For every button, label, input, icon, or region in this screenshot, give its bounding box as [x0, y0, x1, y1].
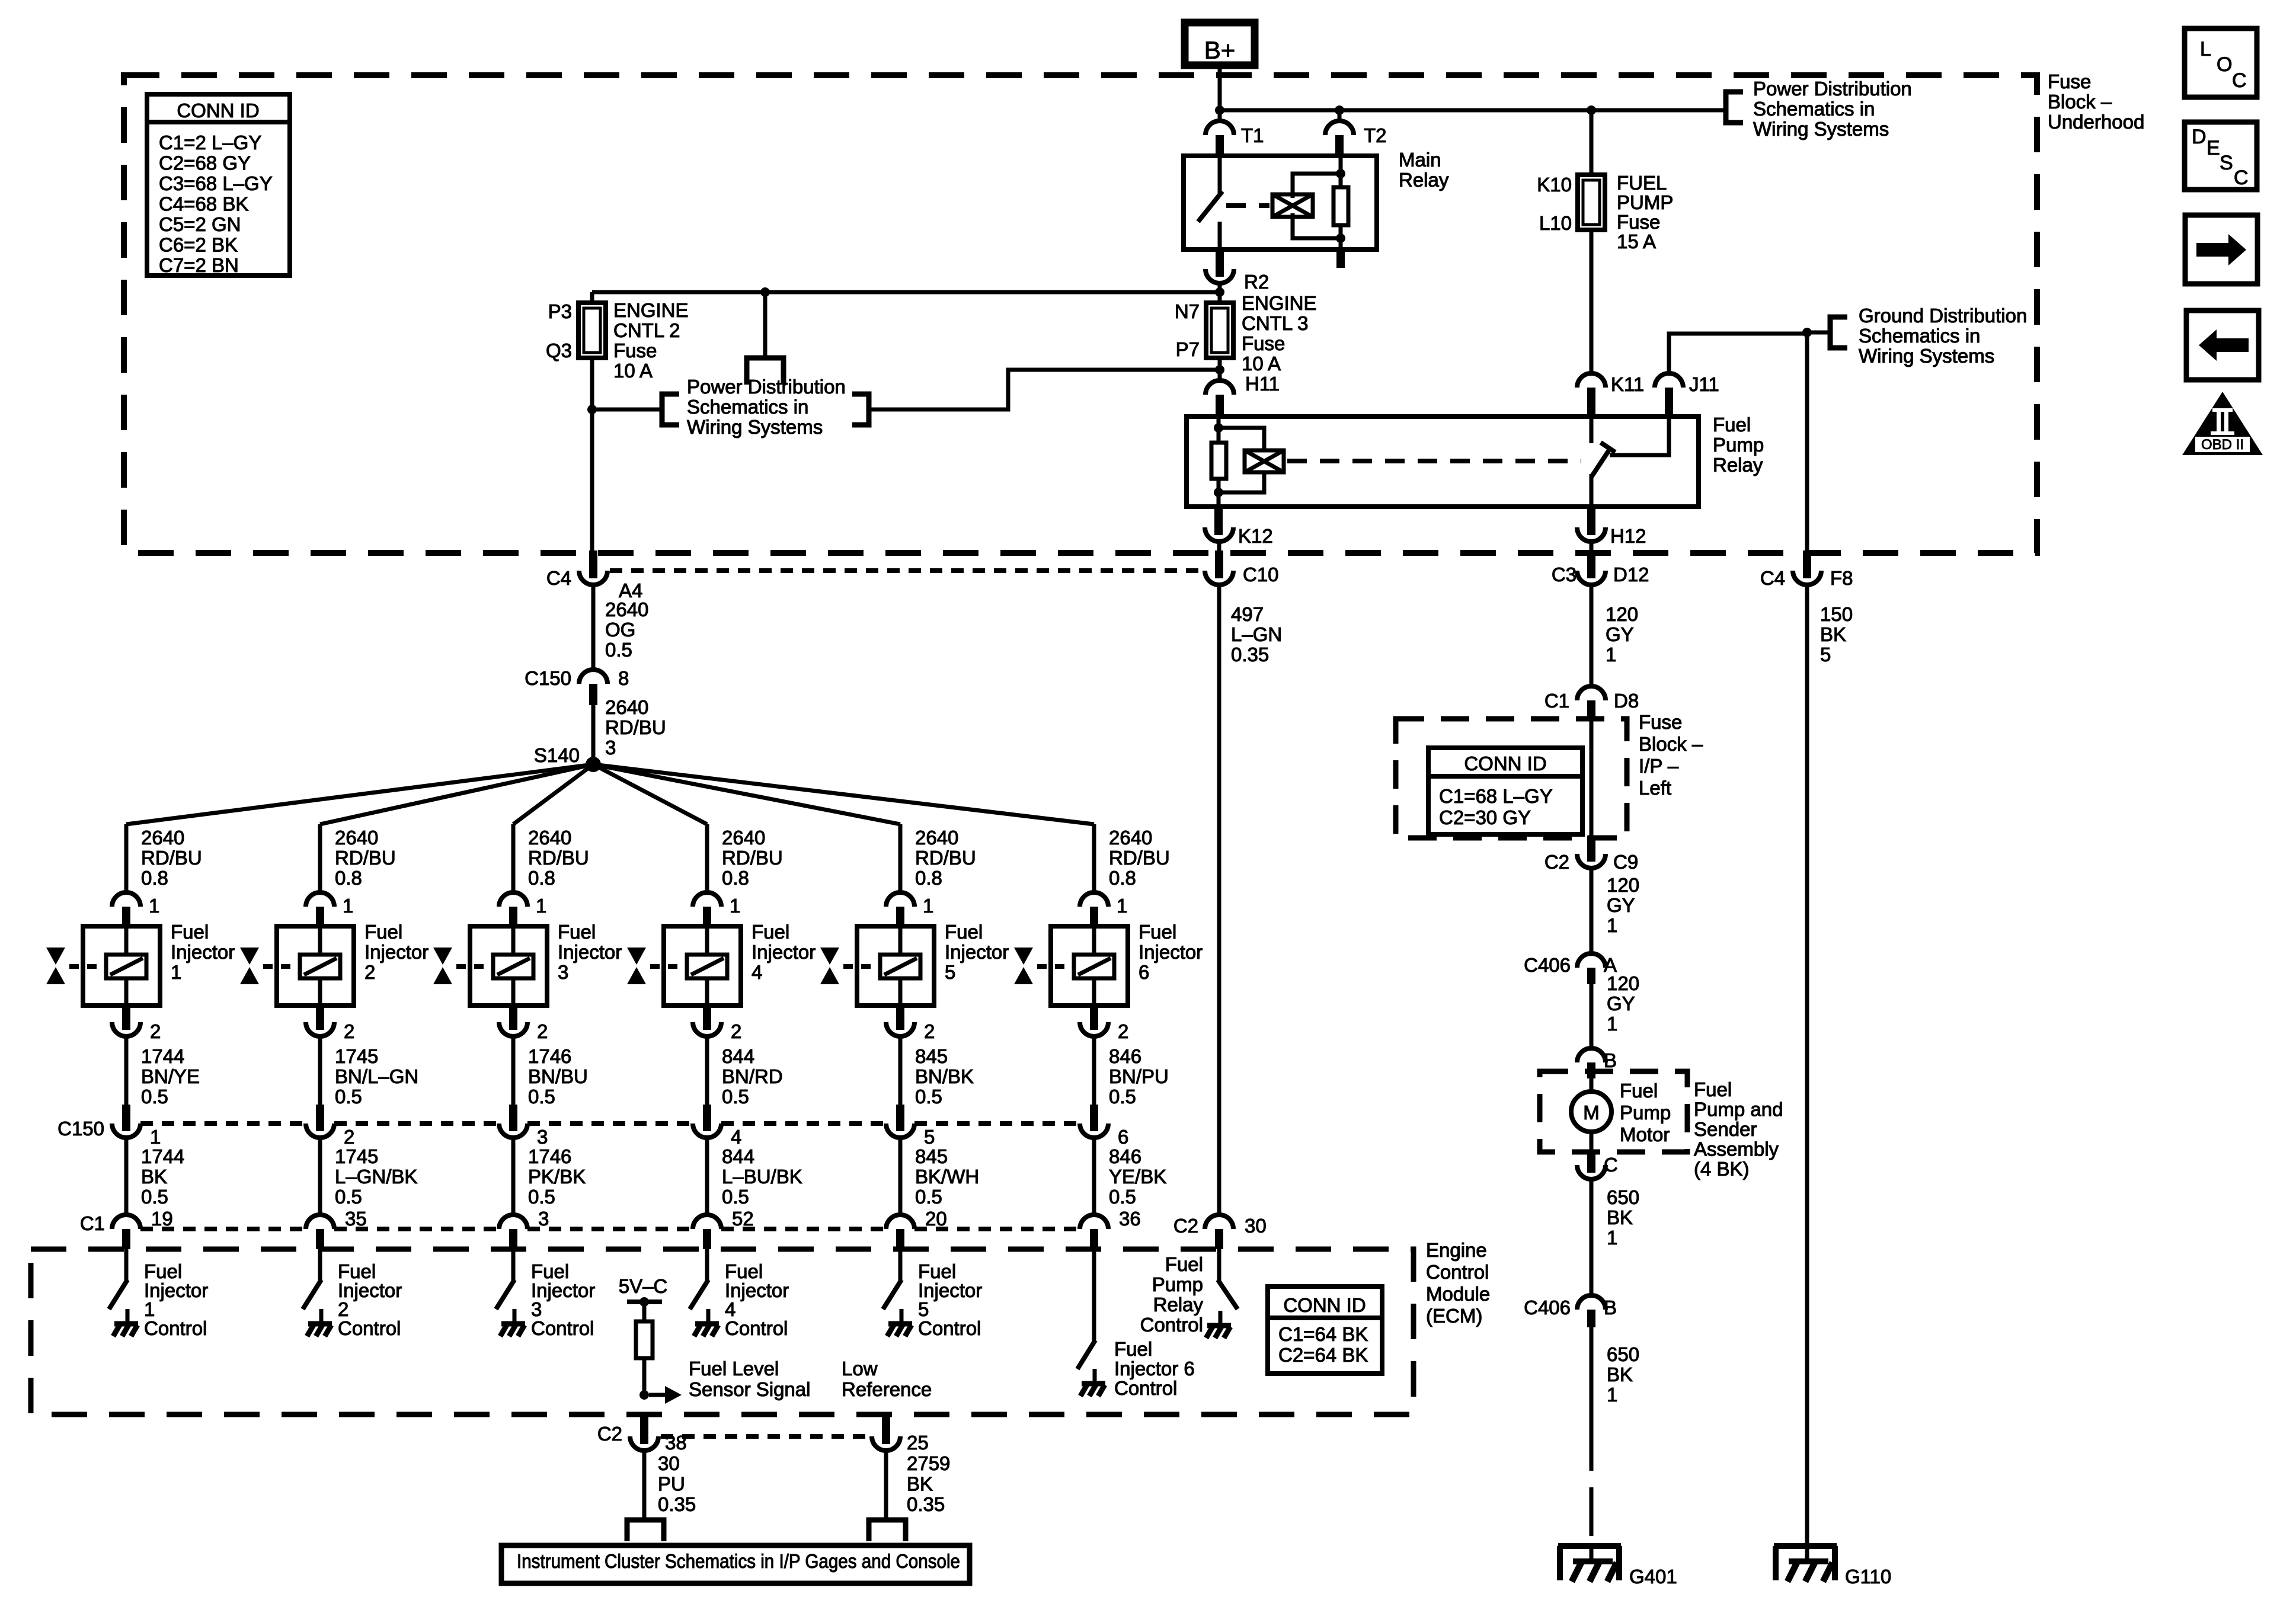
dotted connector line C150 row — [140, 1121, 306, 1126]
wire C150 to C1 injector 1 — [124, 1138, 129, 1215]
fuel injector 6 coil — [1074, 955, 1114, 978]
connector C1 pin 35 — [306, 1215, 334, 1229]
connector C — [1577, 1165, 1606, 1179]
svg-text:120: 120 — [1606, 603, 1638, 625]
svg-text:10 A: 10 A — [1242, 353, 1281, 375]
fuel injector 1 box — [83, 926, 160, 1006]
svg-text:PK/BK: PK/BK — [528, 1166, 586, 1188]
svg-text:Fuse: Fuse — [1639, 711, 1682, 733]
fuel pump motor M — [1571, 1092, 1611, 1132]
fuel level sensor wire upper — [642, 1302, 647, 1321]
svg-text:1744: 1744 — [141, 1045, 184, 1067]
fuel level sensor signal arrow — [649, 1393, 665, 1397]
svg-text:Fuse: Fuse — [1617, 211, 1660, 233]
svg-text:PU: PU — [658, 1473, 685, 1495]
svg-text:1: 1 — [536, 895, 546, 917]
DESC icon — [2185, 122, 2257, 190]
svg-text:Control: Control — [144, 1317, 207, 1339]
wire down injector 2 — [318, 824, 322, 892]
svg-text:Fuel: Fuel — [171, 921, 209, 943]
wire down injector 3 — [511, 824, 516, 892]
svg-text:Fuel: Fuel — [1713, 414, 1751, 436]
svg-text:1746: 1746 — [528, 1145, 571, 1167]
pin K12 through fuse block edge — [1215, 550, 1223, 578]
svg-text:Left: Left — [1639, 777, 1671, 799]
svg-text:0.5: 0.5 — [1109, 1186, 1136, 1208]
bracket ground distribution — [1830, 317, 1847, 348]
svg-text:C1: C1 — [1544, 690, 1569, 712]
svg-text:I/P –: I/P – — [1639, 755, 1679, 777]
fuel injector 6 nozzle bowtie — [1014, 948, 1033, 965]
connector R2 — [1205, 269, 1234, 283]
splice fan wire to injector 3 — [513, 764, 593, 824]
wire down injector 6 — [1092, 824, 1096, 892]
fuel injector 5 coil — [880, 955, 920, 978]
fuel injector 6 inner wires — [1092, 926, 1096, 955]
connector C1 pin 36 — [1080, 1215, 1108, 1229]
svg-text:BK: BK — [1607, 1206, 1633, 1228]
connector C150 pin 3 — [499, 1124, 527, 1138]
ECM fuel injector 2 control switch — [304, 1282, 320, 1307]
svg-text:Power Distribution: Power Distribution — [1753, 78, 1912, 100]
ECM fuel injector 2 control wire — [318, 1249, 322, 1282]
svg-text:C4: C4 — [546, 567, 571, 589]
svg-text:0.5: 0.5 — [528, 1186, 555, 1208]
svg-text:C3: C3 — [1552, 564, 1576, 585]
connector T2 — [1325, 121, 1354, 135]
fuel injector 5 inner wires — [898, 926, 903, 955]
svg-text:Pump: Pump — [1152, 1273, 1203, 1295]
wire C10 down to ECM — [1217, 585, 1221, 1215]
ground G110 — [1774, 1543, 1837, 1549]
fp relay coil top wire — [1219, 428, 1264, 450]
svg-text:CONN ID: CONN ID — [177, 100, 259, 121]
svg-text:Wiring Systems: Wiring Systems — [1753, 118, 1889, 140]
fuel injector 4 coil — [687, 955, 727, 978]
svg-text:846: 846 — [1109, 1145, 1141, 1167]
junction dot T2 bus — [1335, 105, 1344, 115]
svg-text:Control: Control — [531, 1317, 594, 1339]
wire injector 4 down to C150 — [705, 1036, 709, 1105]
svg-text:2640: 2640 — [722, 827, 765, 849]
svg-text:S140: S140 — [534, 744, 580, 766]
svg-text:844: 844 — [722, 1045, 754, 1067]
fuel level sensor wire lower — [642, 1358, 647, 1395]
main relay actuation dashes — [1226, 203, 1269, 208]
svg-text:FUEL: FUEL — [1617, 172, 1667, 194]
svg-text:C9: C9 — [1613, 851, 1638, 873]
svg-text:2: 2 — [150, 1020, 161, 1042]
fuel injector 6 actuation dashes — [1037, 964, 1074, 969]
svg-text:Pump and: Pump and — [1694, 1099, 1783, 1121]
svg-text:R2: R2 — [1244, 271, 1269, 293]
svg-text:0.5: 0.5 — [528, 1086, 555, 1108]
svg-text:Sensor Signal: Sensor Signal — [689, 1378, 810, 1400]
fuel injector 1 nozzle bowtie — [46, 948, 65, 965]
svg-text:1: 1 — [730, 895, 740, 917]
wire B to motor — [1590, 1078, 1594, 1092]
svg-text:Fuse: Fuse — [1242, 332, 1285, 354]
ECM fuel injector 3 control wire — [511, 1249, 516, 1282]
junction dot R2 bus — [1215, 287, 1224, 297]
svg-text:30: 30 — [658, 1452, 680, 1474]
ECM fuel injector 3 control switch — [497, 1282, 513, 1307]
wire down injector 4 — [705, 824, 709, 892]
svg-text:BK: BK — [141, 1166, 167, 1188]
svg-text:C2: C2 — [1544, 851, 1569, 873]
svg-text:RD/BU: RD/BU — [141, 847, 202, 869]
connector C1-D8 — [1577, 686, 1606, 700]
wire C150 to C1 injector 2 — [318, 1138, 322, 1215]
fp relay pin to H12 — [1587, 507, 1595, 535]
fuel injector 3 nozzle bowtie — [433, 948, 452, 965]
wire down injector 1 — [124, 824, 129, 892]
fuel injector 5 nozzle bowtie — [820, 948, 839, 965]
svg-text:1: 1 — [1607, 1013, 1617, 1035]
wire fuse Q3 down — [590, 358, 594, 553]
svg-text:C2=64 BK: C2=64 BK — [1278, 1344, 1368, 1366]
wire C4 to C150 — [591, 585, 596, 670]
connector H11 — [1205, 380, 1234, 395]
svg-text:Relay: Relay — [1713, 454, 1763, 476]
wire B down solid — [1590, 1327, 1594, 1422]
svg-text:10 A: 10 A — [613, 360, 653, 382]
svg-text:2640: 2640 — [141, 827, 184, 849]
svg-text:T2: T2 — [1364, 124, 1387, 146]
ECM ground fuel injector 4 control — [706, 1309, 711, 1324]
svg-text:0.8: 0.8 — [335, 867, 362, 889]
wire bus to fuel pump fuse — [1590, 110, 1594, 175]
wire J11 up and right — [1669, 334, 1807, 373]
svg-text:3: 3 — [558, 961, 568, 983]
svg-text:2: 2 — [1118, 1020, 1128, 1042]
wire injector 3 down to C150 — [511, 1036, 516, 1105]
main relay box — [1184, 156, 1377, 249]
ECM ground fuel injector 5 control — [900, 1309, 904, 1324]
svg-text:0.35: 0.35 — [658, 1493, 696, 1515]
svg-text:0.35: 0.35 — [1231, 644, 1269, 665]
svg-text:Control: Control — [725, 1317, 788, 1339]
svg-text:Power Distribution: Power Distribution — [687, 376, 846, 398]
wire to T2 — [1338, 110, 1342, 121]
svg-text:3: 3 — [537, 1126, 548, 1148]
svg-text:D12: D12 — [1613, 564, 1649, 585]
svg-text:RD/BU: RD/BU — [1109, 847, 1170, 869]
svg-text:N7: N7 — [1175, 300, 1200, 322]
svg-text:S: S — [2220, 152, 2233, 174]
arrow left icon — [2186, 311, 2259, 380]
svg-text:650: 650 — [1607, 1343, 1639, 1365]
arrow right icon — [2185, 215, 2257, 284]
svg-text:C2: C2 — [1173, 1215, 1198, 1237]
connector C10 — [1205, 571, 1233, 585]
svg-text:Reference: Reference — [842, 1378, 932, 1400]
fuel injector 3 coil — [493, 955, 533, 978]
svg-text:0.5: 0.5 — [915, 1186, 942, 1208]
ECM ground fuel injector 3 control — [513, 1309, 517, 1324]
fp relay resistor — [1211, 443, 1226, 479]
svg-text:497: 497 — [1231, 603, 1264, 625]
fp relay switch lower wire — [1590, 474, 1594, 507]
svg-text:2: 2 — [537, 1020, 548, 1042]
svg-text:0.5: 0.5 — [141, 1086, 168, 1108]
pin injector 4 C150 — [703, 1105, 711, 1131]
ECM ground fuel pump relay control — [1219, 1311, 1223, 1326]
svg-text:K10: K10 — [1537, 174, 1572, 196]
ECM CONN ID table — [1268, 1286, 1382, 1374]
svg-text:2: 2 — [924, 1020, 935, 1042]
wire B+ down — [1218, 65, 1222, 110]
fuel injector 4 box — [664, 926, 741, 1006]
svg-text:GY: GY — [1607, 993, 1635, 1014]
fp relay switch blade — [1593, 449, 1610, 475]
connector injector 6 pin 1 — [1080, 892, 1108, 907]
fuel injector 6 box — [1051, 926, 1128, 1006]
svg-text:0.8: 0.8 — [1109, 867, 1136, 889]
bracket power distribution below bus — [747, 358, 784, 385]
svg-text:Injector: Injector — [752, 941, 816, 963]
splice fan wire to injector 6 — [593, 764, 1094, 824]
connector C406-B — [1577, 1295, 1606, 1310]
svg-text:Low: Low — [842, 1358, 878, 1379]
svg-text:3: 3 — [538, 1208, 549, 1230]
fp relay coil — [1245, 450, 1284, 472]
svg-text:C: C — [2232, 69, 2247, 92]
ECM dashed outline — [31, 1249, 1414, 1414]
svg-text:Fuel: Fuel — [1139, 921, 1176, 943]
svg-text:ENGINE: ENGINE — [613, 299, 689, 321]
svg-text:2: 2 — [344, 1126, 354, 1148]
fp relay bottom junction dot — [1214, 488, 1223, 497]
svg-text:D: D — [2192, 126, 2207, 148]
svg-text:C: C — [1604, 1154, 1618, 1176]
svg-text:2: 2 — [731, 1020, 741, 1042]
fp relay resistor wires — [1217, 428, 1221, 443]
svg-text:RD/BU: RD/BU — [915, 847, 976, 869]
svg-text:L–GN: L–GN — [1231, 623, 1282, 645]
wire injector 6 down to C150 — [1092, 1036, 1096, 1105]
svg-text:5: 5 — [945, 961, 955, 983]
connector B — [1577, 1048, 1606, 1062]
svg-text:Ground Distribution: Ground Distribution — [1859, 305, 2027, 327]
fp relay J11 inner wire — [1610, 417, 1669, 455]
svg-text:YE/BK: YE/BK — [1109, 1166, 1166, 1188]
svg-text:4: 4 — [752, 961, 762, 983]
svg-text:BN/YE: BN/YE — [141, 1065, 200, 1087]
svg-text:BN/BK: BN/BK — [915, 1065, 974, 1087]
svg-text:Injector: Injector — [558, 941, 622, 963]
connector injector 4 pin 1 — [693, 892, 721, 907]
bus wire y186 — [1220, 108, 1726, 113]
wire C150 to C1 injector 3 — [511, 1138, 516, 1215]
svg-text:Fuel: Fuel — [945, 921, 983, 943]
svg-text:C6=2 BK: C6=2 BK — [159, 234, 238, 256]
connector injector 3 pin 2 — [509, 1006, 517, 1030]
connector C2-30 — [1205, 1215, 1233, 1229]
fuel level sensor resistor — [636, 1321, 653, 1358]
pin injector 1 C150 — [122, 1105, 130, 1131]
svg-text:(ECM): (ECM) — [1426, 1305, 1482, 1327]
wire C150 to C1 injector 4 — [705, 1138, 709, 1215]
connector C1 pin 52 — [693, 1215, 721, 1229]
connector C406-A — [1577, 953, 1606, 968]
fuel injector 3 box — [470, 926, 547, 1006]
svg-text:120: 120 — [1607, 874, 1639, 896]
svg-text:RD/BU: RD/BU — [722, 847, 783, 869]
svg-text:20: 20 — [925, 1208, 947, 1230]
wire K12 down — [1217, 542, 1221, 553]
svg-text:RD/BU: RD/BU — [605, 716, 666, 738]
svg-text:Fuse: Fuse — [613, 340, 657, 361]
svg-text:5: 5 — [1820, 644, 1831, 665]
junction dot power dist stub — [760, 287, 770, 297]
bracket instrument cluster right — [869, 1520, 906, 1541]
svg-text:C: C — [2234, 167, 2249, 189]
svg-text:2640: 2640 — [605, 598, 648, 620]
wire down injector 5 — [898, 824, 903, 892]
svg-text:Pump: Pump — [1713, 434, 1764, 456]
ECM fuel pump relay control wire — [1217, 1249, 1221, 1282]
svg-text:Wiring Systems: Wiring Systems — [687, 416, 823, 438]
svg-text:Fuel: Fuel — [558, 921, 596, 943]
bus wire y493 — [592, 290, 1220, 295]
wire 25 down — [884, 1451, 888, 1520]
connector J11 — [1655, 373, 1683, 388]
svg-text:Wiring Systems: Wiring Systems — [1859, 345, 1994, 367]
svg-text:0.8: 0.8 — [141, 867, 168, 889]
ECM fuel injector 1 control wire — [124, 1249, 129, 1282]
connector injector 4 pin 2 — [703, 1006, 711, 1030]
svg-text:4: 4 — [731, 1126, 741, 1148]
CONN ID table IP — [1428, 748, 1582, 834]
junction dot power dist left — [587, 405, 597, 414]
B+ battery terminal — [1185, 23, 1255, 65]
ground G401 — [1558, 1543, 1621, 1549]
fuel injector 4 nozzle bowtie — [627, 948, 646, 965]
fp relay K11 contact — [1590, 417, 1594, 443]
svg-text:Control: Control — [1140, 1314, 1203, 1336]
svg-text:846: 846 — [1109, 1045, 1141, 1067]
svg-text:CNTL 3: CNTL 3 — [1242, 312, 1308, 334]
connector 25 — [872, 1436, 900, 1451]
fuel injector 2 nozzle bowtie — [240, 948, 259, 965]
svg-text:C150: C150 — [57, 1118, 104, 1140]
svg-text:35: 35 — [345, 1208, 367, 1230]
svg-text:Fuel: Fuel — [1165, 1253, 1203, 1275]
svg-text:1744: 1744 — [141, 1145, 184, 1167]
svg-text:C150: C150 — [525, 667, 571, 689]
svg-text:8: 8 — [618, 667, 629, 689]
5V-C rail bar — [627, 1299, 662, 1304]
svg-text:F8: F8 — [1830, 567, 1853, 589]
main relay T2 stub pin — [1336, 249, 1345, 268]
pin injector 5 C150 — [896, 1105, 904, 1131]
connector injector 5 pin 1 — [886, 892, 914, 907]
svg-text:1: 1 — [1117, 895, 1127, 917]
svg-text:Engine: Engine — [1426, 1239, 1487, 1261]
svg-text:Control: Control — [1426, 1261, 1489, 1283]
svg-text:0.5: 0.5 — [1109, 1086, 1136, 1108]
svg-text:Q3: Q3 — [546, 340, 572, 361]
connector injector 1 pin 1 — [112, 892, 140, 907]
wire C9 down — [1590, 868, 1594, 953]
junction dot fuel pump fuse bus — [1587, 105, 1596, 115]
svg-text:C4=68 BK: C4=68 BK — [159, 193, 248, 215]
fuel injector 3 actuation dashes — [456, 964, 493, 969]
svg-text:C10: C10 — [1243, 564, 1279, 585]
svg-text:CNTL 2: CNTL 2 — [613, 319, 680, 341]
svg-text:O: O — [2217, 53, 2232, 76]
splice fan wire to injector 1 — [126, 764, 593, 824]
pin C4 left exit — [589, 550, 597, 578]
svg-text:Injector: Injector — [171, 941, 235, 963]
svg-text:Block –: Block – — [1639, 733, 1703, 755]
pin injector 3 C150 — [509, 1105, 517, 1131]
svg-text:C1=64 BK: C1=64 BK — [1278, 1323, 1368, 1345]
svg-text:C1: C1 — [80, 1212, 105, 1234]
fuel level sensor junction dot — [639, 1390, 649, 1400]
svg-text:Block –: Block – — [2048, 91, 2112, 113]
fp relay actuation dashes — [1287, 459, 1581, 463]
wire to power dist down bracket — [763, 292, 768, 358]
svg-text:Control: Control — [1114, 1377, 1177, 1399]
svg-text:OBD II: OBD II — [2201, 437, 2244, 453]
main relay switch blade — [1200, 193, 1221, 220]
connector C2-38 — [630, 1436, 658, 1451]
ECM fuel injector 5 control wire — [898, 1249, 903, 1282]
ECM fuel injector 1 control switch — [110, 1282, 126, 1307]
splice fan wire to injector 2 — [320, 764, 593, 824]
wire injector 2 down to C150 — [318, 1036, 322, 1105]
step wire to N7 fuse bottom — [869, 370, 1220, 409]
wire C down — [1590, 1179, 1594, 1295]
svg-text:0.5: 0.5 — [335, 1086, 362, 1108]
svg-text:L10: L10 — [1539, 212, 1572, 234]
main relay coil — [1272, 194, 1313, 217]
svg-text:C2: C2 — [597, 1423, 622, 1445]
svg-text:GY: GY — [1606, 623, 1634, 645]
connector T1 — [1205, 121, 1234, 135]
svg-text:Assembly: Assembly — [1694, 1138, 1779, 1160]
wire D12 down — [1590, 585, 1594, 686]
svg-text:G401: G401 — [1629, 1566, 1677, 1587]
fuse block IP dashed outline — [1396, 719, 1627, 838]
svg-text:L–BU/BK: L–BU/BK — [722, 1166, 802, 1188]
fuel injector 2 actuation dashes — [263, 964, 300, 969]
svg-text:0.5: 0.5 — [722, 1186, 749, 1208]
svg-text:2640: 2640 — [1109, 827, 1152, 849]
svg-text:M: M — [1583, 1102, 1600, 1124]
wire motor to box edge — [1590, 1132, 1594, 1152]
svg-text:1745: 1745 — [335, 1045, 378, 1067]
fuel injector 4 actuation dashes — [650, 964, 687, 969]
svg-text:Main: Main — [1399, 149, 1441, 171]
svg-text:15 A: 15 A — [1617, 231, 1656, 252]
fuel pump sender dashed outline — [1540, 1071, 1687, 1152]
svg-text:1: 1 — [1607, 1384, 1617, 1406]
svg-text:H11: H11 — [1245, 373, 1280, 395]
svg-text:Fuel: Fuel — [1694, 1078, 1732, 1100]
svg-text:1746: 1746 — [528, 1045, 571, 1067]
connector injector 2 pin 2 — [316, 1006, 324, 1030]
svg-text:1: 1 — [343, 895, 353, 917]
fuel pump relay box — [1187, 417, 1699, 507]
svg-text:0.35: 0.35 — [907, 1493, 945, 1515]
ECM fuel injector 4 control wire — [705, 1249, 709, 1282]
svg-text:L–GN/BK: L–GN/BK — [335, 1166, 417, 1188]
svg-text:BK/WH: BK/WH — [915, 1166, 979, 1188]
wire 38 down — [642, 1451, 647, 1520]
